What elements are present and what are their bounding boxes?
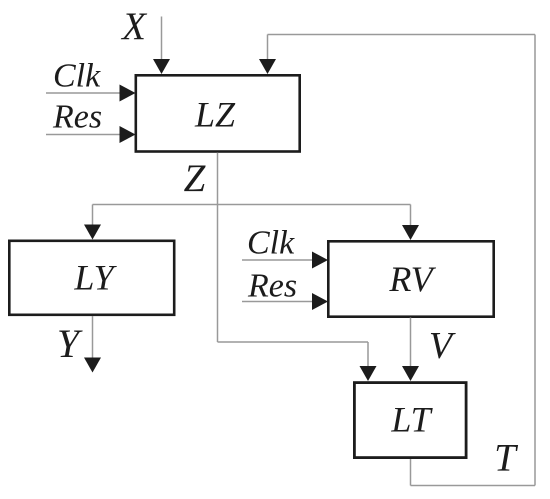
arrowhead Z into LY top	[84, 225, 101, 240]
wire Res to LZ	[46, 134, 121, 136]
wire Res to RV	[242, 301, 313, 303]
svg-text:X: X	[120, 5, 148, 48]
block LZ	[136, 75, 300, 151]
wire Clk to RV	[242, 259, 313, 261]
wire Z branch down to LY	[92, 205, 94, 227]
svg-text:Clk: Clk	[247, 225, 295, 262]
arrowhead Y end	[84, 358, 101, 373]
svg-text:Res: Res	[52, 99, 102, 136]
arrowhead Res into RV left	[312, 293, 328, 310]
wire V from RV to LT	[410, 318, 412, 369]
wire T feedback bottom horizontal	[411, 485, 536, 487]
block LT	[354, 383, 466, 458]
svg-text:Res: Res	[247, 268, 297, 305]
svg-text:LT: LT	[390, 400, 433, 440]
arrowhead V into LT top	[402, 366, 419, 381]
wire Z to LT horizontal	[218, 341, 369, 343]
block RV	[328, 241, 493, 316]
svg-text:Z: Z	[184, 157, 207, 200]
wire Z branch horizontal	[93, 204, 411, 206]
wire T from LT bottom	[410, 458, 412, 486]
arrowhead Clk into RV left	[312, 252, 328, 269]
block LY	[9, 241, 174, 315]
svg-text:T: T	[494, 437, 518, 480]
svg-text:V: V	[429, 325, 456, 367]
arrowhead T into LZ top	[259, 59, 276, 74]
wire T feedback right vertical	[534, 35, 536, 486]
arrowhead Z into LT top	[360, 366, 377, 381]
svg-text:Clk: Clk	[53, 58, 101, 95]
wire Y output	[92, 316, 94, 359]
arrowhead X into LZ top	[153, 59, 170, 74]
wire X input vertical	[161, 17, 163, 63]
svg-text:LZ: LZ	[194, 95, 236, 135]
wire Z to LT vertical	[367, 342, 369, 368]
svg-text:Y: Y	[57, 321, 83, 366]
wire T feedback top horizontal	[268, 34, 536, 36]
arrowhead Res into LZ left	[120, 126, 136, 143]
wire Z vertical from LZ	[217, 153, 219, 343]
svg-text:RV: RV	[388, 259, 436, 299]
wire Clk to LZ	[46, 92, 121, 94]
svg-text:LY: LY	[73, 258, 117, 298]
wire T feedback stub into LZ	[267, 35, 269, 62]
arrowhead Z into RV top	[402, 225, 419, 240]
wire Z branch down to RV	[410, 205, 412, 227]
arrowhead Clk into LZ left	[120, 85, 136, 102]
